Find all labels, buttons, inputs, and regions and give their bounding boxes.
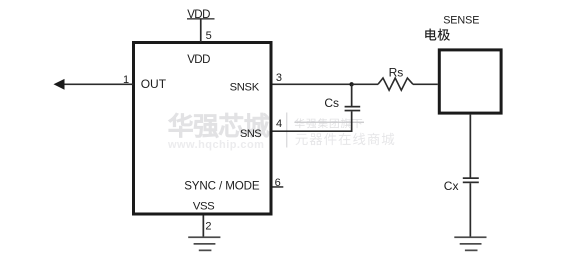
svg-text:SYNC / MODE: SYNC / MODE [184,180,260,193]
svg-text:2: 2 [205,221,211,233]
wire VDD to pin 5 [200,20,202,43]
svg-text:4: 4 [276,118,282,130]
svg-text:3: 3 [276,72,282,84]
ground GND right [454,236,486,251]
svg-text:VSS: VSS [193,201,215,213]
op-amp U1 main IC body [134,43,272,215]
svg-text:SENSE: SENSE [443,15,479,27]
svg-text:www.hqchip.com: www.hqchip.com [167,139,264,151]
resistor Rs [378,78,413,90]
wire node down to Cs [351,84,353,106]
svg-text:Rs: Rs [389,65,404,79]
svg-text:OUT: OUT [141,77,167,91]
wire Cx to ground [470,183,472,237]
ground GND left [188,236,220,251]
svg-text:Cx: Cx [444,179,459,193]
svg-text:VDD: VDD [187,54,210,66]
wire node to resistor [352,84,379,86]
node junction SNSK/Cs/Rs [349,82,353,86]
wire sense box to Cx [470,115,472,179]
svg-text:SNSK: SNSK [230,82,260,94]
svg-text:Cs: Cs [324,96,339,110]
svg-text:5: 5 [206,30,212,42]
arrowhead on OUT wire [54,79,65,90]
watermark [167,113,394,151]
sense electrode box [439,50,501,113]
wire pin 6 stub [273,186,284,188]
wire OUT pin 1 [62,84,134,86]
wire VSS pin 2 to ground [203,216,205,238]
capacitor Cx [463,177,479,183]
power symbol VDD [187,9,215,21]
wire SNSK pin 3 to node [273,84,353,86]
wire SNS pin 4 [273,130,353,132]
capacitor Cs [345,106,361,112]
label sense electrode (Chinese) [425,29,450,41]
wire resistor to sense box [413,84,438,86]
wire Cs down to SNS net [351,111,353,132]
svg-text:SNS: SNS [240,128,261,140]
